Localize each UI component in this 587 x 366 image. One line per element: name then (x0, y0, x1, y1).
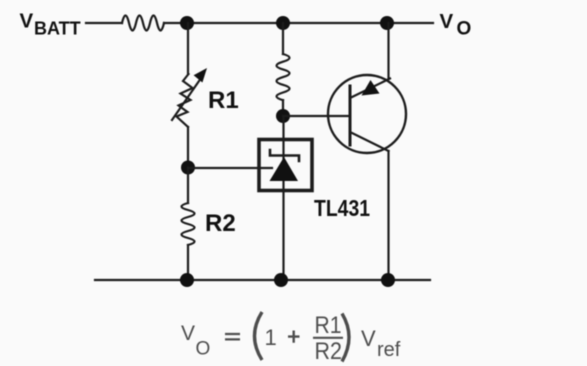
junction node ref (181, 161, 195, 175)
transistor Q1 emitter arrow (362, 80, 380, 96)
junction node top-middle (276, 16, 290, 30)
wire middle column upper (282, 23, 284, 54)
transistor Q1 emitter diagonal (350, 79, 390, 99)
resistor bias (vertical) (277, 54, 290, 100)
svg-text:R1: R1 (315, 312, 342, 339)
node VO label (440, 10, 472, 40)
svg-text:ref: ref (377, 339, 401, 361)
svg-text:O: O (457, 19, 472, 40)
transistor Q1 body (328, 75, 406, 153)
svg-text:V: V (440, 10, 454, 33)
svg-text:R2: R2 (315, 338, 343, 365)
resistor R2 (182, 203, 195, 245)
wire emitter to top rail (387, 23, 389, 79)
formula Vo = (1 + R1/R2) Vref (181, 312, 401, 365)
junction node base (276, 109, 290, 123)
svg-text:O: O (196, 339, 211, 360)
wire left column middle (187, 127, 189, 168)
junction node top-left (180, 16, 194, 30)
svg-text:BATT: BATT (34, 19, 81, 39)
junction node top-right (380, 16, 394, 30)
TL431 anode triangle (270, 157, 299, 181)
TL431 cathode bar (270, 150, 299, 161)
node VBATT label (20, 10, 81, 39)
transistor Q1 collector diagonal (350, 132, 389, 151)
svg-text:R2: R2 (205, 210, 236, 237)
svg-text:V: V (181, 322, 195, 345)
svg-text:V: V (20, 10, 34, 33)
resistor R1 (variable) (172, 68, 207, 127)
transistor Q1 base bar (349, 86, 352, 145)
wire middle column to node (282, 100, 284, 116)
svg-text:V: V (361, 326, 376, 351)
wire top rail right (164, 22, 433, 24)
resistor input (horizontal) (122, 16, 164, 31)
TL431 box U1 (259, 140, 312, 191)
junction node bottom-right (381, 273, 395, 287)
wire left column lower (187, 168, 189, 204)
svg-text:R1: R1 (208, 87, 239, 114)
junction node bottom-middle (274, 273, 288, 287)
svg-text:1: 1 (265, 325, 277, 350)
wire left column upper (187, 23, 189, 74)
svg-text:TL431: TL431 (314, 195, 370, 221)
wire base (283, 115, 350, 117)
wire bottom rail (95, 279, 430, 281)
wire collector to bottom rail (387, 151, 389, 280)
wire ref to TL431 (188, 167, 272, 169)
wire middle column through TL431 (282, 116, 284, 280)
junction node bottom-left (180, 273, 194, 287)
wire top rail left (86, 22, 122, 24)
wire left column bottom (187, 245, 189, 280)
